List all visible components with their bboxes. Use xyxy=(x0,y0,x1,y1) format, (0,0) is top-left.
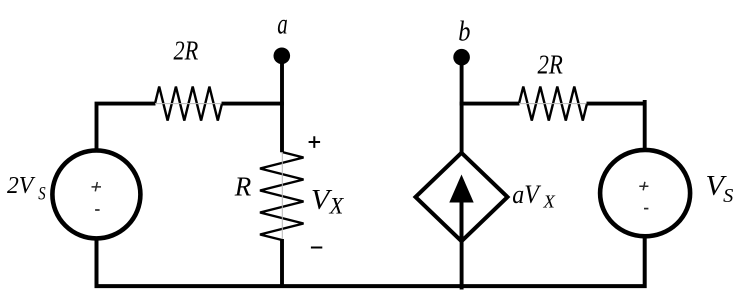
resistor 2R (right) xyxy=(519,87,587,121)
svg-text:S: S xyxy=(38,184,46,205)
wire R bottom to bottom rail xyxy=(280,239,284,286)
wire node b down to current source xyxy=(460,59,464,154)
voltage source 2VS xyxy=(52,150,140,238)
wire below current source xyxy=(460,240,464,290)
svg-text:S: S xyxy=(723,185,733,207)
svg-text:X: X xyxy=(329,194,345,219)
svg-text:R: R xyxy=(234,172,252,202)
wire 2R right to VS top corner xyxy=(587,100,645,149)
svg-text:2V: 2V xyxy=(7,173,35,199)
label + (VX polarity) xyxy=(309,136,321,148)
wire left top L-corner xyxy=(97,104,156,151)
label VS xyxy=(706,171,734,207)
label − (VX polarity) xyxy=(311,247,322,249)
voltage source VS xyxy=(600,150,690,236)
wire resistor to node a xyxy=(222,102,284,106)
wire node a down to resistor R xyxy=(280,58,284,152)
svg-text:aV: aV xyxy=(512,180,541,209)
current source aVX xyxy=(416,153,508,241)
svg-text:a: a xyxy=(277,7,288,40)
svg-text:2R: 2R xyxy=(538,50,564,80)
label VX xyxy=(311,184,344,219)
resistor 2R (left) xyxy=(155,87,222,121)
svg-text:X: X xyxy=(542,191,556,211)
wire bottom rail with left and right risers xyxy=(97,237,645,286)
label 2VS xyxy=(7,173,46,204)
resistor R xyxy=(260,152,304,240)
svg-text:b: b xyxy=(458,15,470,47)
label aVX xyxy=(512,180,556,211)
node b xyxy=(453,49,470,66)
svg-text:2R: 2R xyxy=(174,35,199,65)
node a xyxy=(274,48,291,65)
wire node b to 2R right xyxy=(460,102,520,106)
